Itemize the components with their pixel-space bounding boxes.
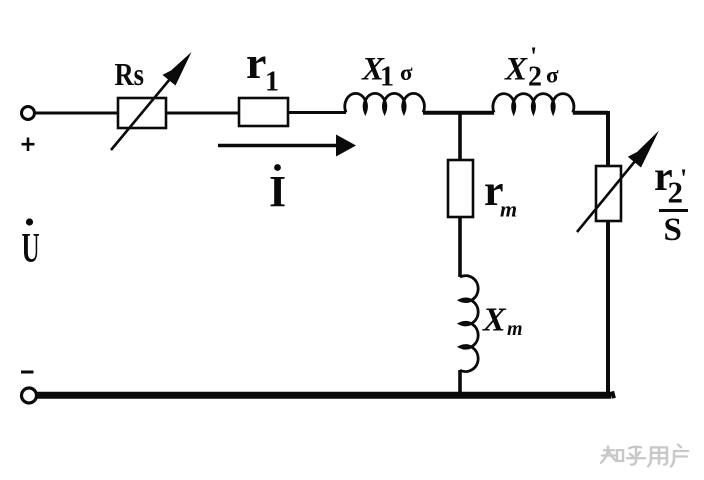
svg-text:Rs: Rs xyxy=(115,58,145,93)
svg-text:2: 2 xyxy=(528,62,542,93)
svg-text:m: m xyxy=(507,318,523,340)
svg-text:1: 1 xyxy=(265,67,279,98)
svg-text:X: X xyxy=(504,52,528,88)
svg-text:S: S xyxy=(664,212,682,248)
svg-text:U: U xyxy=(22,226,40,272)
svg-text:I: I xyxy=(269,167,286,216)
svg-text:σ: σ xyxy=(400,60,413,85)
svg-text:m: m xyxy=(500,197,517,222)
svg-text:1: 1 xyxy=(380,62,394,93)
svg-text:r: r xyxy=(246,37,266,88)
svg-text:X: X xyxy=(482,302,507,339)
svg-text:': ' xyxy=(680,164,687,193)
svg-text:σ: σ xyxy=(546,63,559,88)
